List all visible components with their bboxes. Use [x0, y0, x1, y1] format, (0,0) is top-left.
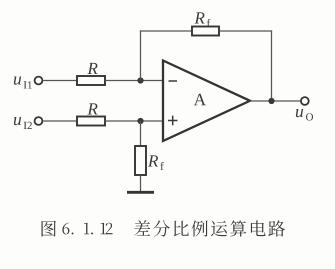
wire feedback top to Rf	[140, 30, 192, 32]
terminal circle u_O	[301, 97, 309, 105]
label R2	[87, 103, 97, 114]
wire op-amp output	[250, 100, 301, 102]
wire input2 to R2	[43, 120, 77, 122]
wire Rf to top-right corner	[219, 30, 272, 32]
label u_O	[296, 109, 313, 121]
wire input1 to R1	[43, 80, 77, 82]
op-amp A	[163, 61, 250, 142]
wire R2 to op-amp noninverting input	[105, 120, 163, 122]
ground	[127, 191, 154, 194]
resistor R1	[77, 76, 105, 85]
wire feedback vertical from inverting node	[140, 30, 142, 80]
resistor Rf feedback	[192, 27, 219, 36]
node dot inverting input	[137, 77, 143, 83]
node dot noninverting input	[137, 118, 143, 124]
wire noninverting node down to Rf2	[140, 121, 142, 146]
label Rf feedback	[194, 12, 210, 27]
label u_I2	[14, 117, 32, 129]
op-amp plus sign	[168, 120, 178, 122]
terminal circle u_I1	[35, 77, 43, 85]
label u_I1	[14, 77, 32, 89]
terminal circle u_I2	[35, 117, 43, 125]
resistor Rf2 grounding	[135, 146, 146, 175]
label A op-amp	[194, 94, 206, 106]
op-amp minus sign	[169, 80, 178, 82]
caption 图 6.1.12 差分比例运算电路	[42, 220, 286, 236]
resistor R2	[77, 117, 105, 126]
wire Rf2 to ground	[140, 175, 142, 192]
wire R1 to op-amp inverting input	[105, 80, 163, 82]
node dot output	[268, 98, 274, 104]
label Rf2 grounding	[148, 155, 164, 170]
label R1	[87, 63, 97, 74]
wire down to output node	[271, 30, 273, 101]
